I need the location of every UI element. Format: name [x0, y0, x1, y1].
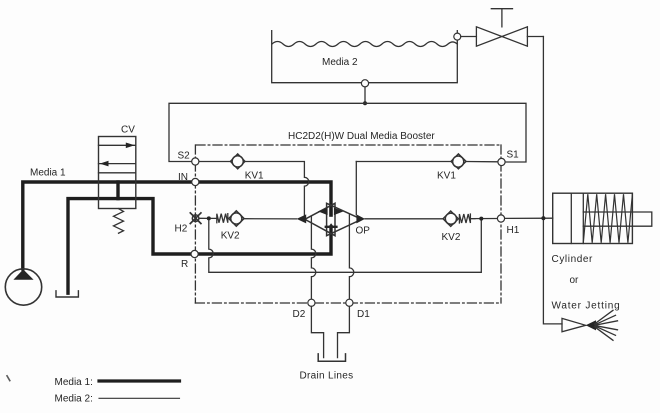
- wire CV internal thick connector: [116, 182, 119, 199]
- port S1: [498, 158, 505, 165]
- svg-text:S2: S2: [178, 151, 191, 162]
- tank Media 2: [272, 31, 458, 83]
- wire S2 line to check valve KV1: [199, 161, 231, 163]
- svg-text:HC2D2(H)W Dual Media Booster: HC2D2(H)W Dual Media Booster: [288, 131, 435, 142]
- right port arrow: [356, 214, 365, 223]
- wire tank node to shutoff valve: [461, 36, 477, 38]
- svg-text:H1: H1: [507, 225, 520, 236]
- reservoir under CV: [56, 291, 78, 297]
- svg-text:OP: OP: [356, 226, 371, 237]
- spring of KV2 left: [211, 214, 228, 223]
- wire H2 to junction: [200, 217, 209, 219]
- wire drain funnel: [311, 306, 349, 357]
- wire S1 line through KV1 right: [356, 161, 498, 163]
- svg-text:IN: IN: [178, 172, 188, 183]
- wire KV2 left to booster arrow: [244, 218, 297, 220]
- wire booster to KV2 right: [365, 218, 443, 220]
- svg-text:or: or: [570, 275, 580, 286]
- port R: [191, 250, 198, 257]
- svg-text:Drain Lines: Drain Lines: [300, 371, 354, 382]
- scan speck: [7, 376, 10, 381]
- svg-text:H2: H2: [175, 224, 188, 235]
- svg-text:D2: D2: [293, 309, 306, 320]
- node tank outlet port: [361, 80, 368, 87]
- wire supply header S2-S1 (thin box): [169, 103, 526, 162]
- wire Media1 thick main loop: [23, 182, 331, 293]
- junction at KV2 left spring: [207, 216, 211, 220]
- wire D2 drain riser with jumps: [311, 216, 315, 299]
- wire vertical feed line to cylinder/nozzle: [543, 37, 562, 324]
- wire drain riser from H2 junction down and across to KV2 right riser: [209, 219, 482, 273]
- svg-text:KV2: KV2: [442, 232, 461, 243]
- port D2: [308, 299, 315, 306]
- big double arrow: [318, 208, 344, 215]
- check valve KV1 (left): [230, 154, 245, 169]
- shutoff valve V1: [476, 9, 527, 47]
- svg-text:CV: CV: [121, 125, 135, 136]
- check valve KV2 (left): [229, 211, 244, 226]
- svg-text:Water Jetting: Water Jetting: [552, 301, 621, 312]
- svg-text:Media 2:: Media 2:: [55, 394, 93, 405]
- check valve KV2 (right): [443, 211, 458, 226]
- piston rod: [583, 212, 652, 226]
- svg-text:Cylinder: Cylinder: [552, 254, 594, 265]
- boundary dash-dot booster enclosure: [195, 145, 501, 303]
- svg-text:KV1: KV1: [245, 171, 264, 182]
- piston: [571, 193, 583, 243]
- spring in cylinder: [583, 194, 632, 243]
- junction on supply line: [363, 101, 367, 105]
- left port arrow: [297, 214, 307, 223]
- pump P1: [5, 269, 41, 305]
- node circle at tank to shutoff valve: [454, 33, 461, 40]
- valve CV: [99, 137, 136, 234]
- svg-text:S1: S1: [507, 150, 520, 161]
- junction at drain riser: [479, 217, 483, 221]
- booster intensifier symbol: [297, 203, 365, 235]
- cylinder assembly: [553, 193, 652, 243]
- wire tank outlet down to supply line: [364, 87, 366, 103]
- junction at cylinder feed: [541, 216, 545, 220]
- nozzle water jetting: [562, 310, 618, 340]
- spring of KV2 right: [459, 214, 475, 223]
- svg-text:KV1: KV1: [437, 171, 456, 182]
- wire S1 riser from OP apex: [355, 162, 357, 215]
- wire shutoff valve to down-line: [527, 36, 543, 38]
- drain collector tank: [318, 354, 345, 361]
- wire KV2 right to H1: [471, 218, 498, 220]
- port S2: [192, 158, 199, 165]
- port H1: [497, 215, 504, 222]
- svg-text:KV2: KV2: [221, 231, 240, 242]
- svg-text:Media 1: Media 1: [30, 168, 66, 179]
- wire D1 drain riser with jump: [349, 214, 353, 299]
- svg-text:R: R: [181, 259, 188, 270]
- small double arrow: [325, 223, 338, 228]
- check valve KV1 (right): [451, 154, 466, 169]
- left chamber triangle: [305, 203, 335, 235]
- wire H1 to cylinder: [505, 217, 553, 219]
- port D1: [346, 299, 353, 306]
- wire KV1 to booster apex riser with jump over thick line: [245, 162, 309, 215]
- right chamber triangle: [327, 203, 362, 235]
- valve H2 (plugged port X symbol): [190, 213, 201, 224]
- svg-text:Media 2: Media 2: [322, 57, 358, 68]
- svg-text:Media 1:: Media 1:: [55, 377, 93, 388]
- svg-text:D1: D1: [357, 309, 370, 320]
- port IN: [192, 178, 199, 185]
